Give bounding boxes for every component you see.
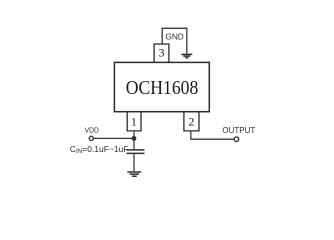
svg-text:OCH1608: OCH1608 — [126, 77, 199, 99]
pin 1 box — [127, 112, 141, 131]
pin 2 box — [184, 112, 199, 131]
wire pin3 to ground — [162, 28, 187, 53]
svg-text:2: 2 — [188, 115, 194, 129]
wire pin2 to OUTPUT terminal — [191, 131, 234, 139]
ground (bottom) — [127, 172, 141, 176]
wire VDD terminal to node — [94, 137, 135, 139]
svg-text:1: 1 — [131, 115, 137, 129]
capacitor CIN — [127, 150, 145, 154]
VDD terminal — [89, 136, 93, 140]
pin 3 box — [154, 44, 169, 62]
svg-text:VDD: VDD — [85, 126, 100, 135]
wire capacitor to ground — [133, 154, 135, 171]
IC U1 body — [114, 62, 209, 111]
svg-text:3: 3 — [159, 45, 165, 59]
ground (top) — [181, 54, 192, 57]
junction node VDD — [132, 136, 137, 141]
wire node to capacitor — [133, 138, 135, 149]
wire pin1 to VDD node — [133, 131, 135, 139]
svg-text:GND: GND — [165, 33, 183, 42]
OUTPUT terminal — [234, 137, 239, 142]
svg-text:OUTPUT: OUTPUT — [222, 125, 255, 135]
